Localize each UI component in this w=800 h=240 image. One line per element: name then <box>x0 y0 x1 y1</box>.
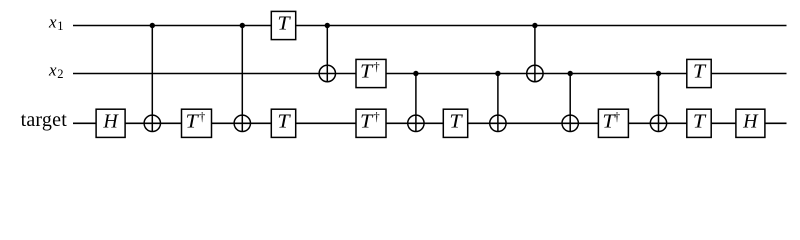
svg-text:x: x <box>48 13 57 32</box>
svg-text:T: T <box>360 61 374 83</box>
svg-text:1: 1 <box>57 19 63 33</box>
svg-text:T: T <box>693 111 707 133</box>
svg-text:†: † <box>614 110 620 124</box>
svg-text:H: H <box>102 111 119 133</box>
svg-text:†: † <box>373 60 379 74</box>
svg-text:target: target <box>21 109 68 131</box>
svg-text:†: † <box>373 110 379 124</box>
svg-text:T: T <box>360 111 374 133</box>
svg-text:x: x <box>48 61 57 80</box>
svg-text:T: T <box>449 111 463 133</box>
svg-text:T: T <box>277 111 291 133</box>
svg-text:T: T <box>693 61 707 83</box>
svg-text:T: T <box>186 111 200 133</box>
svg-text:†: † <box>199 110 205 124</box>
svg-text:H: H <box>742 111 759 133</box>
svg-text:2: 2 <box>57 67 63 81</box>
svg-text:T: T <box>277 13 291 35</box>
